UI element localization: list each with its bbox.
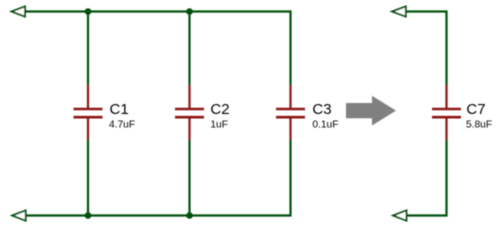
svg-text:C2: C2 [210,101,229,118]
svg-text:C1: C1 [110,101,129,118]
svg-text:4.7uF: 4.7uF [109,120,135,131]
svg-text:C7: C7 [466,101,485,118]
svg-text:0.1uF: 0.1uF [312,120,338,131]
svg-text:5.8uF: 5.8uF [466,120,492,131]
svg-text:1uF: 1uF [210,120,228,131]
svg-text:C3: C3 [312,101,331,118]
